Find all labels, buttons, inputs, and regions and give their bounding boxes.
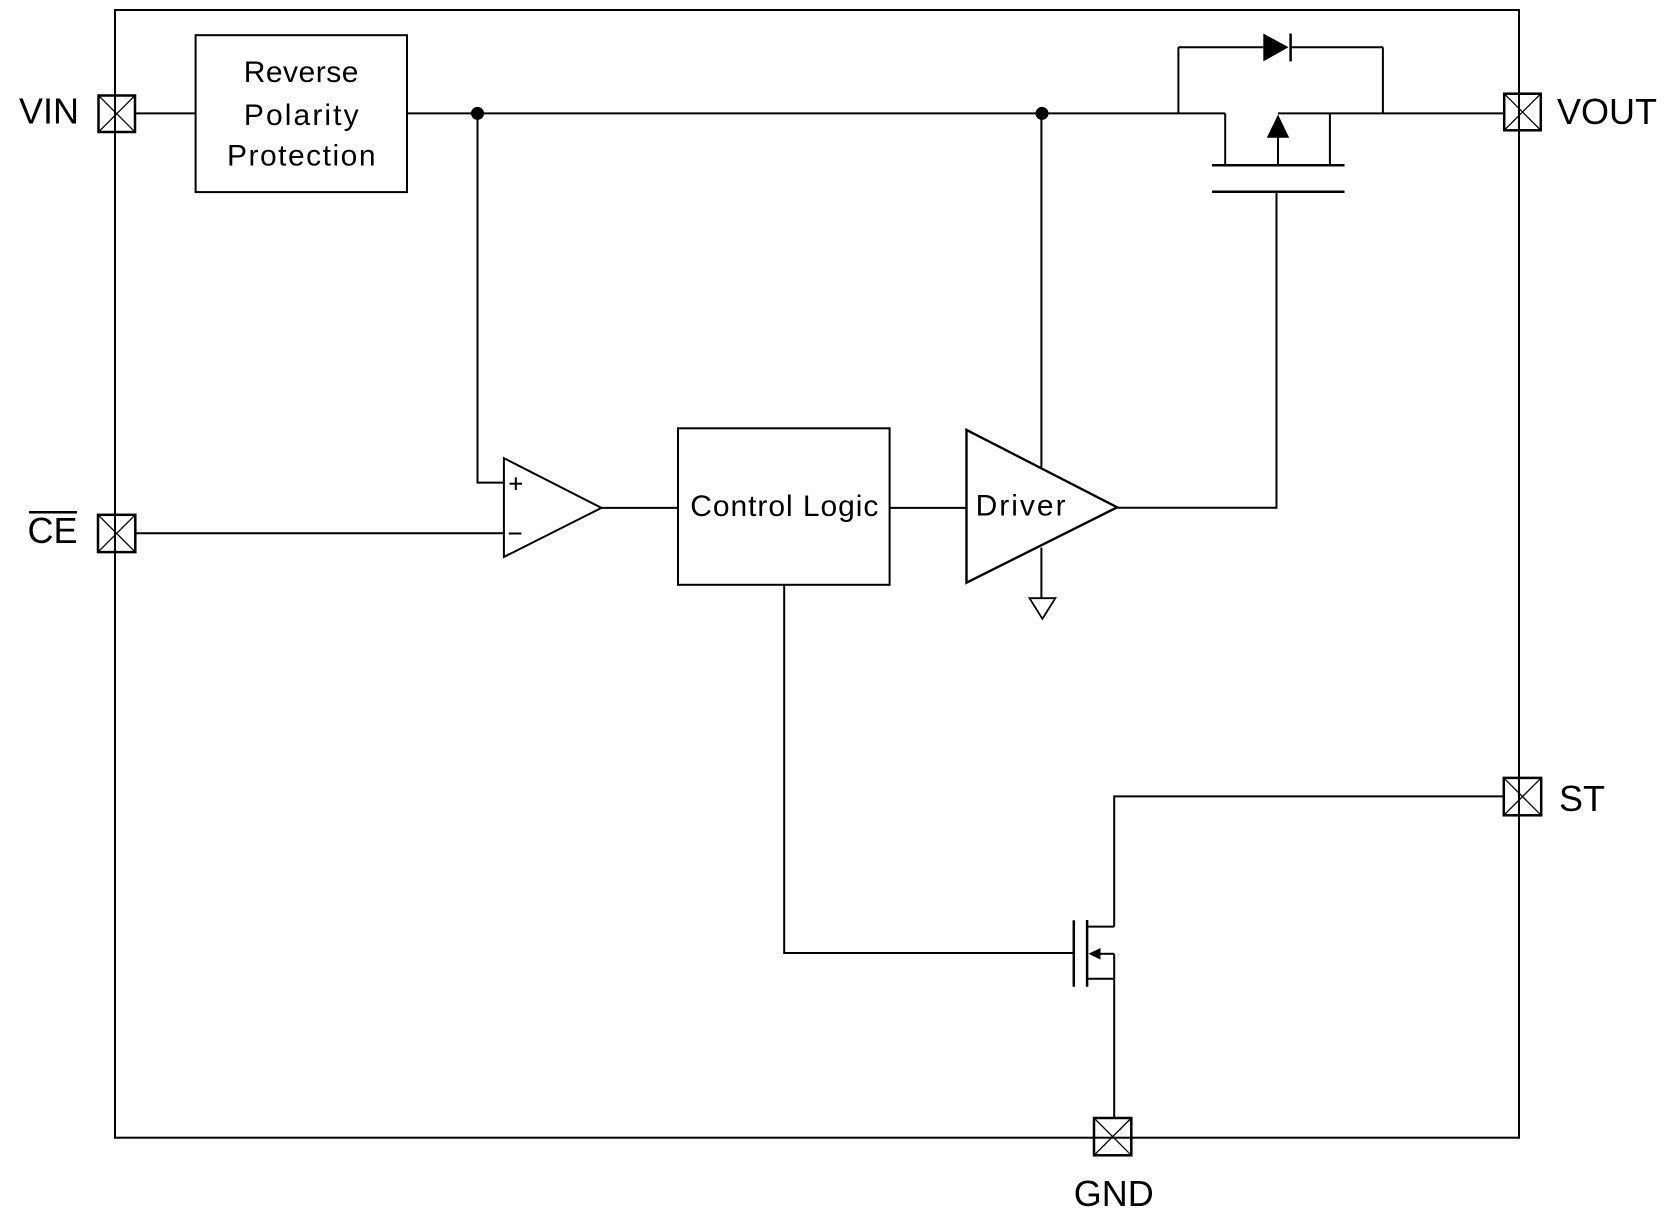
svg-text:VOUT: VOUT (1557, 91, 1657, 132)
svg-text:Reverse: Reverse (244, 56, 359, 89)
svg-text:Polarity: Polarity (244, 99, 361, 132)
svg-text:Driver: Driver (976, 490, 1068, 523)
pin VIN (99, 96, 136, 133)
node junction B (driver supply tap) (1036, 107, 1049, 120)
ground (1030, 598, 1056, 619)
wire: VIN rail from protection block to pass FET drain (407, 112, 1225, 114)
wire: junction B down to driver supply (1040, 113, 1042, 467)
svg-text:CE: CE (27, 510, 77, 551)
wire: Control Logic to Driver (890, 507, 967, 509)
pin CE (98, 515, 135, 552)
IC boundary (115, 10, 1519, 1138)
wire: driver to ground symbol (1040, 548, 1042, 599)
svg-text:GND: GND (1074, 1173, 1154, 1211)
wire: status FET drain to ST pin (1114, 796, 1504, 926)
svg-text:ST: ST (1559, 778, 1605, 819)
body diode D1 (1178, 34, 1383, 114)
wire: junction A down to comparator + input (478, 113, 504, 482)
wire: status FET source to GND pin (1113, 979, 1115, 1118)
pin VOUT (1504, 94, 1541, 131)
comparator U1 (504, 458, 602, 557)
block: Reverse Polarity Protection (196, 35, 407, 192)
block: Control Logic (678, 428, 890, 585)
svg-text:VIN: VIN (19, 91, 79, 132)
pin GND (1094, 1118, 1131, 1155)
wire: CE pin to comparator - input (135, 532, 504, 534)
pass transistor Q1 (P-channel MOSFET) (1212, 113, 1345, 191)
wire: Control Logic to status FET gate (784, 585, 1074, 953)
label CE (with overline) (27, 510, 77, 551)
driver U2 (967, 430, 1118, 583)
wire: driver output to pass FET gate (1117, 193, 1276, 508)
svg-text:Control Logic: Control Logic (690, 490, 879, 523)
wire: pass FET source rail to VOUT (1278, 112, 1504, 114)
svg-text:Protection: Protection (227, 139, 377, 172)
wire: VIN to Reverse Polarity Protection input (135, 112, 196, 114)
status transistor Q2 (N-channel MOSFET) (1074, 920, 1114, 987)
pin ST (1504, 778, 1541, 815)
wire: comparator output to Control Logic (601, 507, 678, 509)
node junction A (comparator tap) (471, 107, 484, 120)
